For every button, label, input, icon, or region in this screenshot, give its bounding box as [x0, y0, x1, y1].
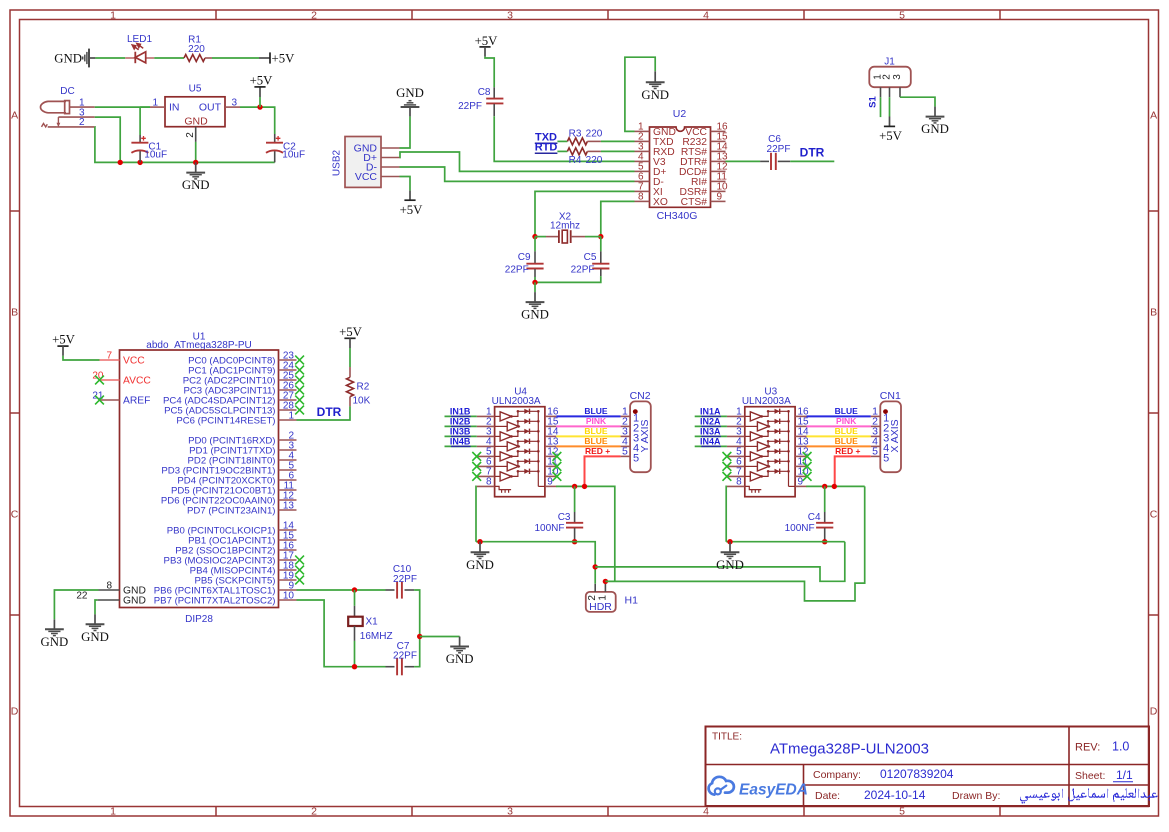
svg-text:GND: GND — [921, 122, 949, 136]
svg-text:GND: GND — [466, 558, 494, 572]
junction — [193, 160, 198, 165]
svg-text:RTD: RTD — [535, 142, 558, 154]
svg-text:Y AXIS: Y AXIS — [639, 419, 651, 452]
wire — [95, 57, 125, 59]
svg-text:GND: GND — [41, 635, 69, 649]
svg-text:22PF: 22PF — [571, 265, 595, 276]
wire R4 to U2 RXD — [601, 150, 635, 152]
junction — [822, 539, 827, 544]
junction — [598, 234, 603, 239]
wire GND rail (U3) — [726, 541, 845, 543]
svg-text:AVCC: AVCC — [123, 376, 151, 387]
svg-text:IN1A: IN1A — [700, 406, 721, 416]
wire U3 pin9 to right branch — [806, 485, 865, 487]
svg-text:HDR: HDR — [589, 601, 612, 613]
svg-text:BLUE: BLUE — [835, 436, 858, 446]
svg-text:10uF: 10uF — [144, 150, 167, 161]
svg-text:GND: GND — [123, 596, 146, 607]
wire H1 pin1 rail to U3 pin9 — [605, 486, 864, 601]
svg-text:DC: DC — [60, 86, 74, 97]
wire USB2 D+ to U2 — [400, 152, 635, 171]
connector USB2 — [332, 137, 400, 188]
IC U1 ATmega328P-PU — [76, 332, 304, 626]
net flag GND (crystal X1) — [446, 637, 474, 667]
svg-text:A: A — [1150, 110, 1157, 122]
wire U2 DTR# to C6 — [726, 160, 761, 162]
svg-text:8: 8 — [106, 580, 112, 591]
wire input IN2A — [695, 425, 727, 427]
svg-text:VCC: VCC — [355, 171, 378, 183]
wire USB2 GND to flag — [400, 116, 411, 148]
svg-text:2: 2 — [185, 132, 196, 138]
drawn-by name (Arabic) — [1020, 789, 1158, 804]
wire C8 to U2 V3 — [494, 116, 634, 161]
svg-text:PC6 (PCINT14RESET): PC6 (PCINT14RESET) — [176, 415, 275, 426]
wire GND rail (U4) — [476, 542, 595, 584]
capacitor C6 — [760, 134, 790, 170]
wire +5V to C8 — [485, 57, 494, 88]
svg-text:2: 2 — [882, 74, 893, 80]
capacitor C2 — [266, 134, 305, 162]
svg-text:C9: C9 — [518, 252, 531, 263]
wire RED + supply — [585, 456, 621, 486]
svg-text:VCC: VCC — [123, 356, 145, 367]
wire U5 OUT to +5V junction — [240, 107, 275, 134]
svg-text:9: 9 — [547, 477, 553, 488]
wire J1 pin1 stub — [880, 97, 882, 117]
wire +5V to R2 — [349, 348, 351, 367]
junction — [532, 280, 537, 285]
net flag +5V (U5 out) — [250, 73, 274, 97]
junction — [417, 634, 422, 639]
connector CN1 (X AXIS) — [871, 390, 901, 472]
svg-text:BLUE: BLUE — [584, 426, 607, 436]
junction — [532, 234, 537, 239]
LED LED1 — [125, 34, 154, 63]
svg-text:BLUE: BLUE — [584, 436, 607, 446]
net label RTD — [535, 142, 558, 154]
net label IN4B — [450, 436, 471, 446]
svg-text:PB7 (PCINT7XTAL2TOSC2): PB7 (PCINT7XTAL2TOSC2) — [154, 595, 276, 606]
net label IN3B — [450, 426, 471, 436]
junction — [257, 104, 262, 109]
svg-text:Company:: Company: — [813, 769, 861, 781]
wire U1 pin8 to GND — [54, 590, 98, 619]
wire — [557, 140, 567, 142]
net flag GND (LED row) — [54, 49, 95, 68]
svg-text:+5V: +5V — [879, 129, 903, 143]
svg-text:AREF: AREF — [123, 396, 150, 407]
wire USB2 VCC to +5V — [400, 177, 411, 191]
wire +5V to U1 pin7 — [63, 356, 100, 360]
svg-text:PD7 (PCINT23AIN1): PD7 (PCINT23AIN1) — [187, 505, 276, 516]
svg-text:GND: GND — [716, 558, 744, 572]
svg-text:100NF: 100NF — [785, 523, 815, 534]
svg-text:220: 220 — [586, 155, 603, 166]
svg-text:RED +: RED + — [585, 446, 610, 456]
IC U4 ULN2003A — [472, 386, 561, 496]
wire — [557, 150, 567, 152]
wire U4 pin16 (BLUE) — [556, 415, 620, 417]
wire input IN3A — [695, 435, 727, 437]
junction — [603, 579, 608, 584]
wire U4 pin14 (YELLOW) — [556, 435, 620, 437]
svg-text:Sheet:: Sheet: — [1075, 770, 1105, 782]
svg-text:2: 2 — [311, 806, 317, 818]
connector DC — [41, 86, 95, 128]
wire input IN4A — [695, 445, 727, 447]
net label IN2B — [450, 416, 471, 426]
svg-text:C: C — [11, 509, 19, 521]
svg-text:U2: U2 — [673, 108, 687, 120]
wire input IN2B — [445, 425, 477, 427]
svg-text:3: 3 — [507, 806, 513, 818]
svg-text:CTS#: CTS# — [681, 197, 708, 208]
net flag +5V (C8) — [475, 34, 499, 56]
net flag GND (USB2) — [396, 86, 424, 116]
wire U4 pin15 (PINK) — [556, 425, 620, 427]
wire C10 to right branch — [414, 590, 420, 637]
junction — [477, 539, 482, 544]
junction — [572, 484, 577, 489]
svg-text:A: A — [11, 110, 18, 122]
svg-text:ULN2003A: ULN2003A — [492, 396, 541, 407]
wire input IN1A — [695, 415, 727, 417]
junction — [727, 539, 732, 544]
svg-text:TITLE:: TITLE: — [712, 732, 742, 743]
wire U2 XI to X2 — [535, 191, 635, 236]
svg-text:1: 1 — [597, 595, 608, 601]
wire input IN3B — [445, 435, 477, 437]
capacitor C5 — [535, 237, 609, 283]
svg-text:C: C — [1150, 509, 1158, 521]
svg-text:C8: C8 — [478, 87, 491, 98]
svg-text:9: 9 — [717, 192, 723, 203]
wire U3 pin14 (YELLOW) — [807, 435, 871, 437]
svg-text:XO: XO — [653, 197, 668, 208]
svg-text:9: 9 — [798, 477, 804, 488]
svg-text:RED +: RED + — [835, 446, 860, 456]
svg-text:1.0: 1.0 — [1112, 740, 1129, 754]
svg-text:GND: GND — [182, 178, 210, 192]
net flag GND (crystal X2) — [521, 292, 549, 322]
svg-text:IN2A: IN2A — [700, 416, 721, 426]
net flag +5V (U1 VCC) — [52, 333, 76, 356]
svg-text:4: 4 — [703, 10, 709, 22]
svg-text:16MHZ: 16MHZ — [360, 631, 393, 642]
capacitor C9 — [505, 237, 544, 283]
svg-text:22PF: 22PF — [458, 101, 482, 112]
capacitor C3 100NF — [534, 486, 583, 541]
junction — [593, 564, 598, 569]
svg-text:DIP28: DIP28 — [185, 614, 213, 625]
svg-text:BLUE: BLUE — [835, 426, 858, 436]
junction — [137, 160, 142, 165]
wire C6 to DTR — [790, 160, 834, 162]
svg-text:D: D — [1150, 706, 1158, 718]
junction — [352, 664, 357, 669]
svg-text:5: 5 — [872, 446, 878, 458]
wire J1 pin2 to +5V — [889, 97, 891, 116]
wire R2 to U1 PC6 — [297, 406, 351, 420]
svg-text:BLUE: BLUE — [835, 406, 858, 416]
svg-text:X AXIS: X AXIS — [889, 419, 901, 452]
svg-text:LED1: LED1 — [127, 34, 152, 45]
svg-text:C5: C5 — [584, 252, 597, 263]
svg-text:REV:: REV: — [1075, 742, 1100, 754]
svg-text:CN1: CN1 — [880, 390, 901, 402]
svg-text:22PF: 22PF — [393, 574, 417, 585]
svg-text:R3: R3 — [569, 129, 582, 140]
net label IN4A — [700, 436, 721, 446]
svg-text:DTR: DTR — [800, 146, 825, 160]
connector H1 HDR — [586, 581, 638, 612]
net flag GND (U3) — [716, 542, 744, 572]
wire H1 pin2 branch to U3 GND rail — [595, 542, 845, 582]
svg-text:2024-10-14: 2024-10-14 — [864, 788, 926, 802]
svg-text:GND: GND — [396, 86, 424, 100]
svg-text:3: 3 — [507, 10, 513, 22]
capacitor C8 — [458, 87, 503, 116]
svg-text:+5V: +5V — [52, 333, 76, 347]
svg-text:D: D — [11, 706, 19, 718]
wire DC pin3 to ground rail — [95, 117, 121, 162]
svg-text:8: 8 — [486, 477, 492, 488]
svg-text:B: B — [11, 307, 18, 319]
svg-text:IN4B: IN4B — [450, 436, 471, 446]
svg-text:C4: C4 — [808, 512, 821, 523]
svg-text:7: 7 — [106, 350, 112, 361]
connector J1 — [868, 57, 911, 108]
net flag GND (U1 pin8) — [41, 619, 69, 649]
net label IN2A — [700, 416, 721, 426]
svg-text:22PF: 22PF — [393, 651, 417, 662]
wire U4 pin13 (ORANGE) — [556, 445, 620, 447]
net flag +5V (LED row) — [259, 52, 295, 66]
svg-text:5: 5 — [633, 453, 639, 465]
wire J1 pin3 to GND — [900, 97, 935, 106]
svg-text:1: 1 — [110, 10, 116, 22]
wire U3 pin13 (ORANGE) — [807, 445, 871, 447]
svg-text:Drawn By:: Drawn By: — [952, 790, 1000, 802]
svg-text:5: 5 — [883, 453, 889, 465]
svg-text:1: 1 — [288, 410, 294, 421]
wire U2 XO to X2 — [601, 201, 635, 236]
wire DC pin2 to ground rail — [95, 127, 275, 162]
net label TXD — [535, 132, 558, 144]
resistor R2 10K — [347, 367, 371, 407]
svg-text:8: 8 — [638, 192, 644, 203]
junction — [832, 484, 837, 489]
svg-text:IN3B: IN3B — [450, 426, 471, 436]
svg-text:12mhz: 12mhz — [550, 221, 580, 232]
svg-text:GND: GND — [641, 88, 669, 102]
svg-text:1: 1 — [152, 97, 158, 108]
wire U1 PB6 to crystal — [297, 589, 386, 591]
svg-text:3: 3 — [232, 97, 238, 108]
junction — [352, 587, 357, 592]
svg-text:ATmega328P-ULN2003: ATmega328P-ULN2003 — [770, 741, 929, 758]
resistor R4 — [567, 148, 602, 166]
svg-text:13: 13 — [283, 500, 295, 511]
svg-text:IN: IN — [169, 102, 180, 114]
wire U3 pin8 to GND rail — [725, 486, 728, 541]
svg-text:S1: S1 — [868, 95, 879, 107]
crystal X2 12mhz — [535, 212, 601, 243]
svg-text:10K: 10K — [353, 396, 371, 407]
wire C7 up to junction — [414, 637, 420, 667]
wire U1 PB7 to bottom rail — [297, 600, 386, 667]
EasyEDA logo — [709, 777, 808, 799]
wire R3 to U2 TXD — [601, 140, 635, 142]
wire USB2 D- to U2 — [400, 167, 635, 181]
junction — [822, 484, 827, 489]
regulator U5 — [150, 84, 240, 142]
svg-text:U5: U5 — [189, 84, 202, 95]
svg-text:DTR: DTR — [317, 405, 342, 419]
wire U1 pin22 to GND — [95, 600, 98, 614]
wire U3 pin15 (PINK) — [807, 425, 871, 427]
svg-text:5: 5 — [899, 806, 905, 818]
svg-text:PINK: PINK — [836, 416, 857, 426]
wire U2 GND pin1 to flag — [625, 57, 655, 131]
net label IN1A — [700, 406, 721, 416]
svg-text:2: 2 — [311, 10, 317, 22]
svg-text:3: 3 — [892, 74, 903, 80]
svg-text:BLUE: BLUE — [584, 406, 607, 416]
wire U5 pin2 to ground rail — [195, 142, 197, 163]
capacitor C10 — [386, 564, 417, 599]
wire U4 pin9 output rail — [556, 486, 615, 581]
svg-text:10: 10 — [283, 590, 295, 601]
wire — [212, 57, 259, 59]
crystal X1 16MHZ — [348, 590, 392, 667]
svg-text:X1: X1 — [366, 617, 379, 628]
junction — [118, 160, 123, 165]
svg-text:GND: GND — [521, 308, 549, 322]
net label IN3A — [700, 426, 721, 436]
svg-text:+5V: +5V — [250, 73, 274, 87]
svg-text:100NF: 100NF — [534, 523, 564, 534]
svg-text:GND: GND — [184, 116, 208, 128]
IC U2 CH340G — [635, 108, 729, 222]
svg-text:B: B — [1150, 307, 1157, 319]
svg-text:GND: GND — [446, 652, 474, 666]
svg-text:1/1: 1/1 — [1116, 768, 1133, 782]
svg-text:R2: R2 — [357, 382, 370, 393]
net label IN1B — [450, 406, 471, 416]
svg-text:5: 5 — [899, 10, 905, 22]
svg-text:5: 5 — [622, 446, 628, 458]
svg-text:GND: GND — [54, 52, 82, 66]
wire U5 IN junction — [140, 106, 150, 108]
wire RED + supply — [835, 456, 871, 486]
svg-text:220: 220 — [188, 44, 205, 55]
svg-text:+5V: +5V — [400, 203, 424, 217]
svg-text:ULN2003A: ULN2003A — [742, 396, 791, 407]
svg-text:R4: R4 — [569, 155, 582, 166]
svg-text:8: 8 — [736, 477, 742, 488]
net flag GND (U2) — [641, 71, 669, 102]
svg-text:+5V: +5V — [339, 325, 363, 339]
net flag +5V (J1) — [879, 117, 903, 143]
capacitor C7 — [386, 641, 417, 675]
svg-text:22PF: 22PF — [505, 265, 529, 276]
svg-text:IN4A: IN4A — [700, 436, 721, 446]
svg-text:+5V: +5V — [272, 52, 296, 66]
wire DC pin1 to U5 IN — [95, 106, 150, 108]
svg-text:CN2: CN2 — [630, 390, 651, 402]
svg-text:1: 1 — [110, 806, 116, 818]
wire U3 pin16 (BLUE) — [807, 415, 871, 417]
svg-text:OUT: OUT — [199, 102, 222, 114]
net flag GND (U5) — [182, 162, 210, 192]
wire to GND flag — [534, 282, 536, 292]
capacitor C1 — [131, 107, 167, 162]
svg-text:EasyEDA: EasyEDA — [739, 782, 808, 799]
title block — [706, 727, 1150, 807]
wire input IN1B — [445, 415, 477, 417]
IC U3 ULN2003A — [723, 386, 812, 496]
net flag +5V (USB2) — [400, 191, 424, 217]
junction — [572, 539, 577, 544]
resistor R1 — [184, 35, 212, 62]
svg-text:4: 4 — [703, 806, 709, 818]
svg-text:22PF: 22PF — [767, 144, 791, 155]
capacitor C4 100NF — [785, 486, 834, 541]
svg-text:GND: GND — [81, 630, 109, 644]
svg-text:22: 22 — [76, 590, 88, 601]
wire — [259, 97, 261, 107]
svg-text:01207839204: 01207839204 — [880, 767, 954, 781]
wire junction to GND flag — [420, 636, 460, 638]
svg-text:IN2B: IN2B — [450, 416, 471, 426]
svg-text:C3: C3 — [558, 512, 571, 523]
svg-text:2: 2 — [79, 117, 85, 128]
svg-text:220: 220 — [586, 129, 603, 140]
svg-text:USB2: USB2 — [332, 150, 343, 177]
net flag GND (U1 pin22) — [81, 614, 109, 644]
svg-text:10uF: 10uF — [282, 150, 305, 161]
svg-text:Date:: Date: — [815, 790, 840, 802]
wire input IN4B — [445, 445, 477, 447]
svg-text:CH340G: CH340G — [657, 210, 698, 222]
svg-text:H1: H1 — [625, 594, 639, 606]
net flag GND (U4) — [466, 542, 494, 572]
net flag GND (J1) — [921, 107, 949, 137]
net flag +5V (R2) — [339, 325, 363, 348]
connector CN2 (Y AXIS) — [621, 390, 651, 472]
svg-text:PINK: PINK — [586, 416, 607, 426]
svg-text:IN3A: IN3A — [700, 426, 721, 436]
svg-text:IN1B: IN1B — [450, 406, 471, 416]
resistor R3 — [567, 129, 602, 145]
junction — [582, 484, 587, 489]
wire U4 pin8 to GND rail — [475, 486, 478, 541]
wire — [154, 57, 184, 59]
